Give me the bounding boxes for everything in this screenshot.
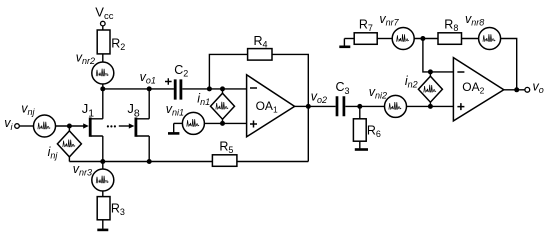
- wire R4 left leg: [209, 54, 247, 89]
- ground for v_ni1: [168, 123, 179, 133]
- node i_n2 bottom: [428, 104, 433, 109]
- current noise i_n2: [418, 76, 442, 102]
- wire arrow to J8 gate: [119, 123, 135, 128]
- wire v_ni2 to OA2 plus: [407, 105, 454, 107]
- wire v_nr7 to node: [414, 38, 438, 40]
- wire v_nr2 to node: [102, 84, 104, 89]
- wire J8 drain up: [148, 89, 150, 119]
- transistor J8: [136, 118, 149, 137]
- wire C3 to v_ni2: [345, 105, 384, 107]
- noise source v_nr7: [392, 28, 414, 50]
- ground left of R7: [339, 39, 350, 47]
- resistor R2: [97, 30, 110, 54]
- wire terminal to v_nj: [19, 125, 33, 127]
- wire i_n2 stubs: [429, 72, 431, 107]
- node J8 source on rail: [147, 159, 152, 164]
- wire ground to v_ni1: [174, 122, 183, 124]
- node input junction: [67, 124, 72, 129]
- wire source rail: [69, 161, 212, 163]
- wire i_nj to rail: [68, 157, 70, 162]
- noise source v_nr8: [479, 28, 501, 50]
- wire top row to C2: [103, 88, 174, 90]
- wire Vcc to R2: [102, 26, 104, 30]
- op-amp OA1: [247, 75, 295, 137]
- wire J8 source down: [148, 136, 150, 162]
- node i_n1 top: [220, 86, 225, 91]
- wire R2 to v_nr2: [102, 54, 104, 62]
- dots ellipsis between J1 and J8: [107, 125, 116, 127]
- wire stub to i_nj: [68, 126, 70, 131]
- noise source v_ni2: [385, 95, 407, 117]
- terminal v_o: [525, 87, 530, 92]
- wire J1 drain up: [102, 89, 104, 119]
- wire from R7 row down to minus row: [423, 39, 431, 72]
- wire rail to v_nr3: [102, 162, 104, 170]
- wire v_o2 to C3: [308, 105, 335, 107]
- plus polarity mark C2: [165, 78, 172, 85]
- node i_n2 top: [428, 69, 433, 74]
- resistor R5: [212, 155, 237, 167]
- wire v_nr3 to R3: [102, 191, 104, 197]
- capacitor C2: [175, 79, 181, 99]
- wire R7 to v_nr7: [377, 38, 392, 40]
- wire R6 to ground: [359, 141, 361, 148]
- ground under R6: [355, 148, 368, 151]
- noise source v_nr3: [92, 169, 114, 191]
- wire C2 to OA1 minus: [182, 88, 246, 90]
- wire v_nj to J1 gate: [56, 125, 84, 127]
- wire rail right of R5: [237, 161, 308, 163]
- wire to R6: [359, 106, 361, 118]
- wire R8 to v_nr8: [462, 38, 479, 40]
- node i_n1 bottom: [220, 121, 225, 126]
- wire minus row to OA2: [430, 71, 453, 73]
- wire i_n1 stubs: [222, 89, 224, 124]
- resistor R3: [97, 197, 110, 220]
- node R6 tap: [357, 104, 362, 109]
- wire ground to R7: [344, 38, 354, 40]
- resistor R4: [248, 49, 272, 61]
- resistor R8: [438, 33, 462, 45]
- terminal v_i: [15, 124, 20, 129]
- noise source v_nj: [34, 115, 56, 137]
- wire OA2 output: [504, 89, 525, 91]
- terminal Vcc: [101, 21, 106, 26]
- resistor R6: [353, 119, 366, 141]
- current noise i_nj: [57, 131, 81, 157]
- transistor J1: [83, 118, 103, 137]
- node J1 source on rail: [100, 159, 105, 164]
- node v_o1: [147, 86, 152, 91]
- wire v_ni1 to OA1 plus: [204, 122, 246, 124]
- wire R3 to ground: [102, 220, 104, 229]
- noise source v_nr2: [92, 62, 114, 84]
- node OA2 output: [514, 87, 519, 92]
- capacitor C3: [337, 96, 344, 116]
- node J1 drain / v_nr2: [100, 86, 105, 91]
- wire feedback vertical to rail: [307, 106, 309, 161]
- wire OA1 output: [295, 105, 309, 107]
- wire v_nr8 feedback to output: [501, 39, 517, 90]
- resistor R7: [354, 33, 377, 45]
- node R4 tap: [207, 86, 212, 91]
- wire J1 source down: [102, 136, 104, 162]
- node R7 R8 junction: [420, 36, 425, 41]
- ground under R3: [97, 229, 108, 232]
- node OA1 output: [306, 104, 311, 109]
- op-amp OA2: [453, 58, 503, 121]
- wire R4 right leg: [272, 54, 308, 106]
- noise source v_ni1: [182, 112, 204, 134]
- current noise i_n1: [211, 93, 235, 119]
